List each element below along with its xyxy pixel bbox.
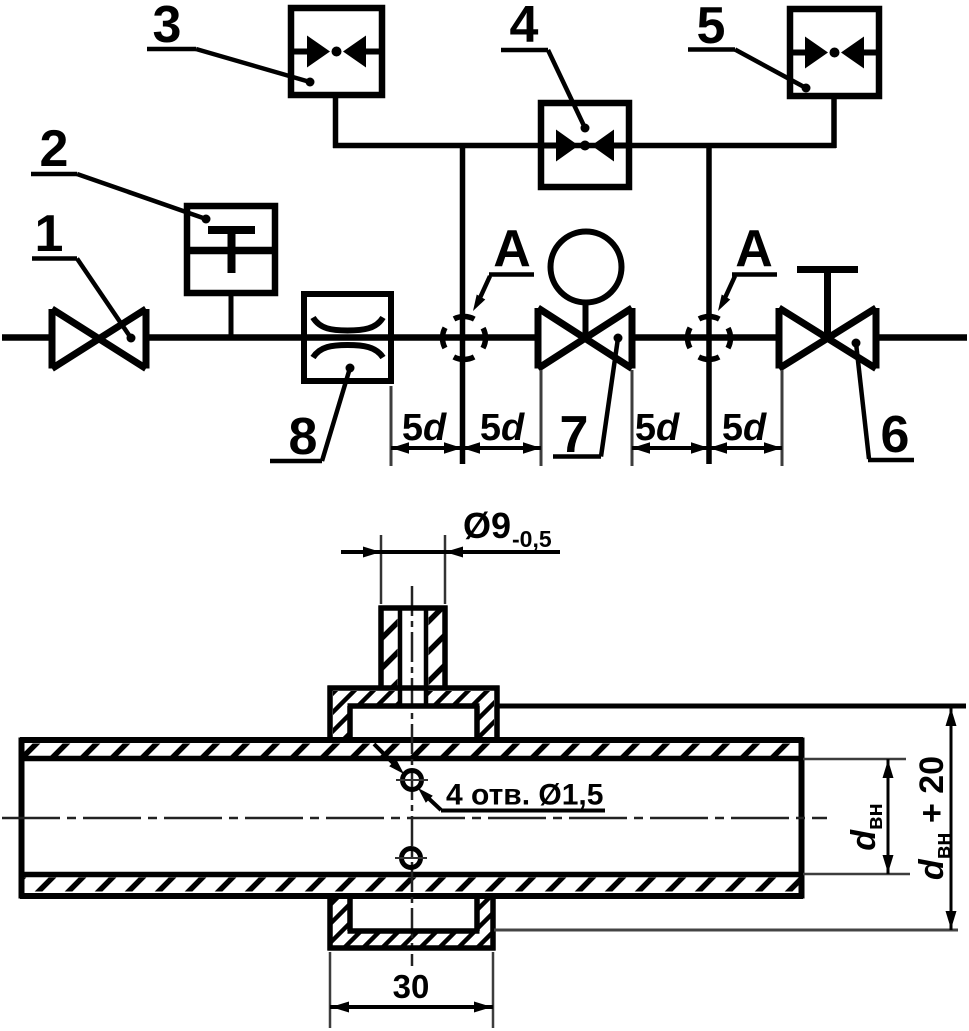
svg-text:1: 1 — [35, 205, 64, 263]
svg-text:2: 2 — [40, 120, 69, 178]
svg-text:4 отв. Ø1,5: 4 отв. Ø1,5 — [446, 779, 603, 812]
svg-text:8: 8 — [289, 408, 318, 466]
svg-text:6: 6 — [881, 406, 910, 464]
svg-text:-0,5: -0,5 — [512, 526, 552, 552]
svg-text:dвн + 20: dвн + 20 — [913, 756, 955, 880]
svg-text:A: A — [735, 220, 773, 278]
svg-text:5d: 5d — [402, 407, 447, 449]
svg-text:7: 7 — [560, 406, 589, 464]
svg-text:30: 30 — [393, 968, 430, 1005]
svg-text:Ø9: Ø9 — [463, 505, 511, 546]
svg-text:5d: 5d — [722, 407, 767, 449]
svg-text:4: 4 — [510, 0, 539, 54]
svg-text:3: 3 — [153, 0, 182, 54]
svg-text:5: 5 — [697, 0, 726, 55]
svg-text:5d: 5d — [635, 407, 680, 449]
svg-text:A: A — [493, 220, 531, 278]
svg-text:5d: 5d — [480, 407, 525, 449]
